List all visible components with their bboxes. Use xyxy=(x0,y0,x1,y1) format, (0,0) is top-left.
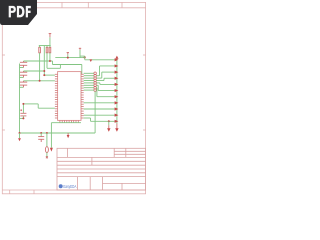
capacitor C3 xyxy=(20,81,27,88)
node dot crystal xyxy=(84,56,86,58)
wire bottom GND bus xyxy=(20,132,96,134)
wire fan J1 row2 xyxy=(96,72,117,78)
wire net N3 xyxy=(24,80,55,82)
wire R3 drop xyxy=(49,53,51,61)
wire fan J1 row3 xyxy=(96,78,117,80)
wire fan J1 row1 xyxy=(96,66,117,76)
node dots bottom bus xyxy=(19,132,48,134)
wire crystal elbow xyxy=(80,56,85,60)
frame inner top line xyxy=(2,7,145,9)
wire R2 drop xyxy=(46,53,48,69)
ground arrow bottom of port column xyxy=(115,128,118,131)
EasyEDA logo xyxy=(59,184,77,189)
capacitor C1 xyxy=(20,61,27,68)
wire net N2 xyxy=(24,70,45,72)
wire net to IC pin xyxy=(44,74,55,76)
ground symbol below rail xyxy=(18,133,21,141)
wire IC to port row 9 xyxy=(84,108,117,110)
wire N1 jog down xyxy=(52,61,54,65)
title block outline xyxy=(57,148,146,190)
net port arrow up top xyxy=(115,56,118,59)
wire GND drop left xyxy=(50,133,52,148)
wire rail to C3 xyxy=(20,86,24,88)
ground arrow left xyxy=(50,148,53,152)
capacitor C4 polarized xyxy=(20,104,27,119)
wire J1 bottom drop xyxy=(94,91,96,133)
supply VCC P3 xyxy=(79,48,81,58)
wire drop to lower ground xyxy=(108,121,110,125)
wire R1 drop xyxy=(39,53,41,81)
wire rail to C1 xyxy=(20,67,24,69)
wire fan J1 row6 xyxy=(96,88,117,97)
supply VCC P2 above IC xyxy=(67,52,69,58)
title block mid divider xyxy=(91,157,93,165)
wire rail A above IC xyxy=(55,57,84,59)
wire rail B above IC xyxy=(53,64,82,66)
wire rail B down to IC pin xyxy=(81,65,83,75)
wire resistor top bus xyxy=(39,37,51,47)
resistor R3 xyxy=(49,47,51,53)
node dot row11 xyxy=(108,120,110,122)
frame column ticks top xyxy=(35,2,122,7)
IC U1 right pins xyxy=(81,74,84,118)
IC U1 xyxy=(58,72,81,121)
title block rev/date subgrid xyxy=(114,148,145,157)
svg-text:EasyEDA: EasyEDA xyxy=(63,184,76,189)
connector J1 pins xyxy=(94,72,97,91)
fuse F1 oval xyxy=(45,133,48,158)
title block row line 1 xyxy=(57,156,146,158)
frame outer border xyxy=(2,2,145,193)
wire mid drop xyxy=(43,46,45,76)
wire net row 1 to port xyxy=(85,59,117,61)
title block top row divider xyxy=(66,148,68,157)
wire below IC upper xyxy=(51,123,81,133)
resistor R1 xyxy=(39,47,41,53)
node junction dots left xyxy=(39,60,51,82)
ground flag mid xyxy=(67,133,70,138)
wire IC to port row 11 xyxy=(84,118,117,121)
frame inner bottom line xyxy=(2,189,145,191)
PDF badge xyxy=(0,0,37,25)
net port column red tail xyxy=(116,124,118,129)
wires IC to J1 xyxy=(84,73,94,90)
net port arrows xyxy=(115,58,119,123)
IC U1 bottom pins xyxy=(60,120,78,122)
wire IC to port row 8 xyxy=(84,102,117,104)
title block row lines xyxy=(57,161,146,176)
capacitor C2 xyxy=(20,71,27,77)
wire C4 top net xyxy=(23,104,55,108)
title block bottom row dividers xyxy=(78,177,146,190)
resistor R2 xyxy=(46,47,48,53)
frame column ticks bottom xyxy=(10,190,34,194)
net port column wire xyxy=(116,58,118,124)
IC U1 left pins xyxy=(55,74,58,118)
frame row ticks xyxy=(2,55,145,130)
wire fan J1 row5 xyxy=(96,85,117,90)
node dots C4 xyxy=(22,103,24,120)
wire net with elbow xyxy=(47,65,60,69)
supply VCC P1 xyxy=(49,33,52,37)
wire IC to port row 10 xyxy=(84,114,117,116)
capacitor C5 xyxy=(38,133,44,142)
ground arrow lower xyxy=(107,125,110,132)
wire net N1 xyxy=(24,60,53,62)
wire fan J1 row4 xyxy=(96,83,117,85)
wire rail to C2 xyxy=(20,76,24,78)
ground rail (left, GND net) xyxy=(19,64,21,134)
power flag arrow down xyxy=(89,59,92,62)
